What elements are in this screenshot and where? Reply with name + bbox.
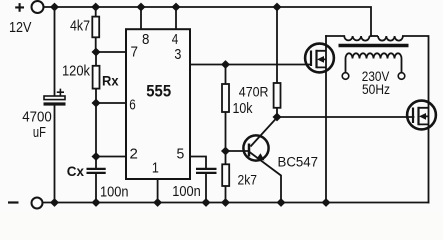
svg-text:2: 2 xyxy=(130,147,138,163)
svg-text:3: 3 xyxy=(174,47,181,63)
svg-text:Rx: Rx xyxy=(102,73,119,89)
svg-text:BC547: BC547 xyxy=(278,155,319,170)
svg-text:Cx: Cx xyxy=(67,163,84,179)
svg-text:555: 555 xyxy=(146,81,171,100)
svg-text:7: 7 xyxy=(131,45,139,61)
svg-text:4k7: 4k7 xyxy=(70,19,90,35)
svg-text:470R: 470R xyxy=(239,84,269,99)
svg-text:4700: 4700 xyxy=(22,110,52,126)
svg-text:120k: 120k xyxy=(62,64,91,80)
svg-text:12V: 12V xyxy=(9,20,32,36)
svg-text:5: 5 xyxy=(177,147,185,163)
svg-text:100n: 100n xyxy=(100,185,129,201)
svg-text:uF: uF xyxy=(33,125,46,141)
svg-text:8: 8 xyxy=(142,32,149,48)
svg-text:6: 6 xyxy=(129,98,136,114)
svg-text:100n: 100n xyxy=(172,184,201,200)
svg-text:50Hz: 50Hz xyxy=(362,81,390,97)
svg-text:10k: 10k xyxy=(233,101,254,117)
svg-text:4: 4 xyxy=(172,32,179,48)
svg-text:2k7: 2k7 xyxy=(238,172,258,188)
svg-text:1: 1 xyxy=(152,161,159,177)
